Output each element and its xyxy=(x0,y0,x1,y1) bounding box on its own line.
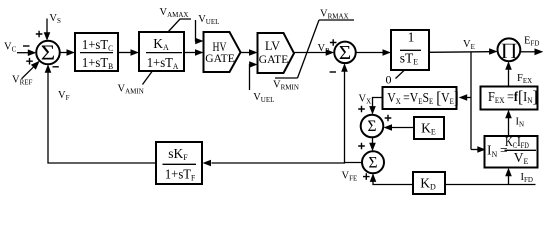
node VF label xyxy=(58,90,70,102)
svg-text:Σ: Σ xyxy=(367,118,376,135)
limit mark VAMAX xyxy=(160,7,192,32)
svg-text:Σ: Σ xyxy=(41,41,55,64)
node VC label xyxy=(4,42,30,54)
limit mark VAMIN xyxy=(118,72,153,96)
block sKF/(1+sTF) xyxy=(156,142,202,184)
node IFD label xyxy=(521,172,533,184)
wire IFD bottom line right segment xyxy=(445,184,536,186)
node VUEL top label xyxy=(198,14,219,26)
node VE label xyxy=(463,39,475,51)
node VRMAX label xyxy=(320,8,349,20)
summing junction S2 xyxy=(330,42,356,72)
node VRMIN label xyxy=(273,79,299,91)
svg-text:GATE: GATE xyxy=(259,52,289,66)
node VX label xyxy=(359,94,372,106)
node FEX label xyxy=(517,73,532,85)
summing junction S3 xyxy=(358,106,391,138)
block 1/sTE xyxy=(391,30,429,71)
block KD xyxy=(413,172,445,194)
block IN=KC IFD/VE xyxy=(485,134,538,168)
block (1+sTC)/(1+sTB) xyxy=(75,33,118,71)
wire IFD into IN block xyxy=(505,168,512,185)
node EFD label xyxy=(524,35,539,47)
svg-text:Σ: Σ xyxy=(339,42,351,63)
svg-text:LV: LV xyxy=(265,39,280,53)
node VUEL bottom label xyxy=(253,92,274,104)
wire VS input arrow xyxy=(44,19,51,41)
wire EFD output xyxy=(520,48,543,55)
wire VUEL into HV gate xyxy=(195,20,203,44)
node VREF label xyxy=(12,58,33,86)
svg-text:1: 1 xyxy=(408,30,415,45)
wire KA block to HV gate xyxy=(184,49,204,56)
wire TB block to KA block xyxy=(118,49,139,56)
wire VC input arrow xyxy=(17,49,36,56)
wire VE branch into VX block xyxy=(459,94,471,101)
svg-text:Σ: Σ xyxy=(368,155,377,172)
wire S4 output to junction and sKF block xyxy=(203,160,363,167)
wire VE tap down xyxy=(470,52,472,150)
summing junction S4 xyxy=(358,143,384,180)
node IN label xyxy=(516,116,525,128)
wire HV gate to LV gate xyxy=(241,49,258,56)
multiplier PI xyxy=(498,38,521,61)
svg-text:∏: ∏ xyxy=(500,41,517,59)
summing junction S1 xyxy=(36,41,60,65)
wire S2 to TE block xyxy=(356,49,391,56)
svg-text:0: 0 xyxy=(386,72,392,86)
wire VREF input arrow xyxy=(22,61,40,79)
svg-text:GATE: GATE xyxy=(205,51,235,65)
node VS label xyxy=(36,13,61,37)
wire VX block to S3 xyxy=(369,98,382,115)
wire KE to S3 xyxy=(384,124,415,131)
wire VE main line to multiplier xyxy=(429,48,498,55)
block KA/(1+sTA) xyxy=(139,32,184,71)
block VX=VE SE[VE] xyxy=(383,87,459,109)
LV gate xyxy=(258,33,295,73)
node VFE label xyxy=(342,171,358,183)
wire VFE up into S2 xyxy=(341,63,348,163)
node VR label xyxy=(318,39,337,55)
wire IFD bottom line left segment into S4 xyxy=(370,173,413,184)
wire LV gate to S2 xyxy=(294,49,334,56)
limit mark 0 xyxy=(386,71,405,87)
wire VE branch into IN block xyxy=(471,146,486,153)
block KE xyxy=(414,117,444,139)
wire VF feedback to S1 xyxy=(45,64,156,163)
block FEX=f[IN] xyxy=(481,87,538,110)
wire S3 to S4 xyxy=(369,138,376,152)
HV gate xyxy=(204,32,241,72)
wire IN into FEX block xyxy=(505,110,512,136)
wire S1 to block TB xyxy=(60,49,75,56)
wire VUEL into LV gate xyxy=(249,61,257,90)
node VF minus sign xyxy=(53,66,59,68)
limiter VRMAX/VRMIN xyxy=(275,20,354,78)
wire FEX into multiplier xyxy=(505,61,512,86)
